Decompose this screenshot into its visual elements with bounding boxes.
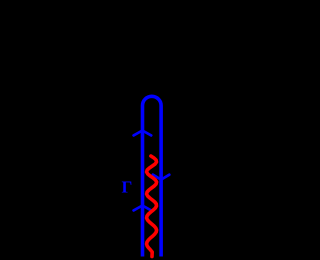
svg-text:Γ: Γ xyxy=(122,178,133,197)
arrow up 2 on left leg xyxy=(134,206,152,211)
branch cut (red squiggle) xyxy=(147,156,157,257)
contour Gamma hairpin (blue keyhole path around branch cut) xyxy=(143,96,162,256)
arrow down on right leg xyxy=(153,175,169,180)
arrow up 1 on left leg xyxy=(134,131,152,136)
